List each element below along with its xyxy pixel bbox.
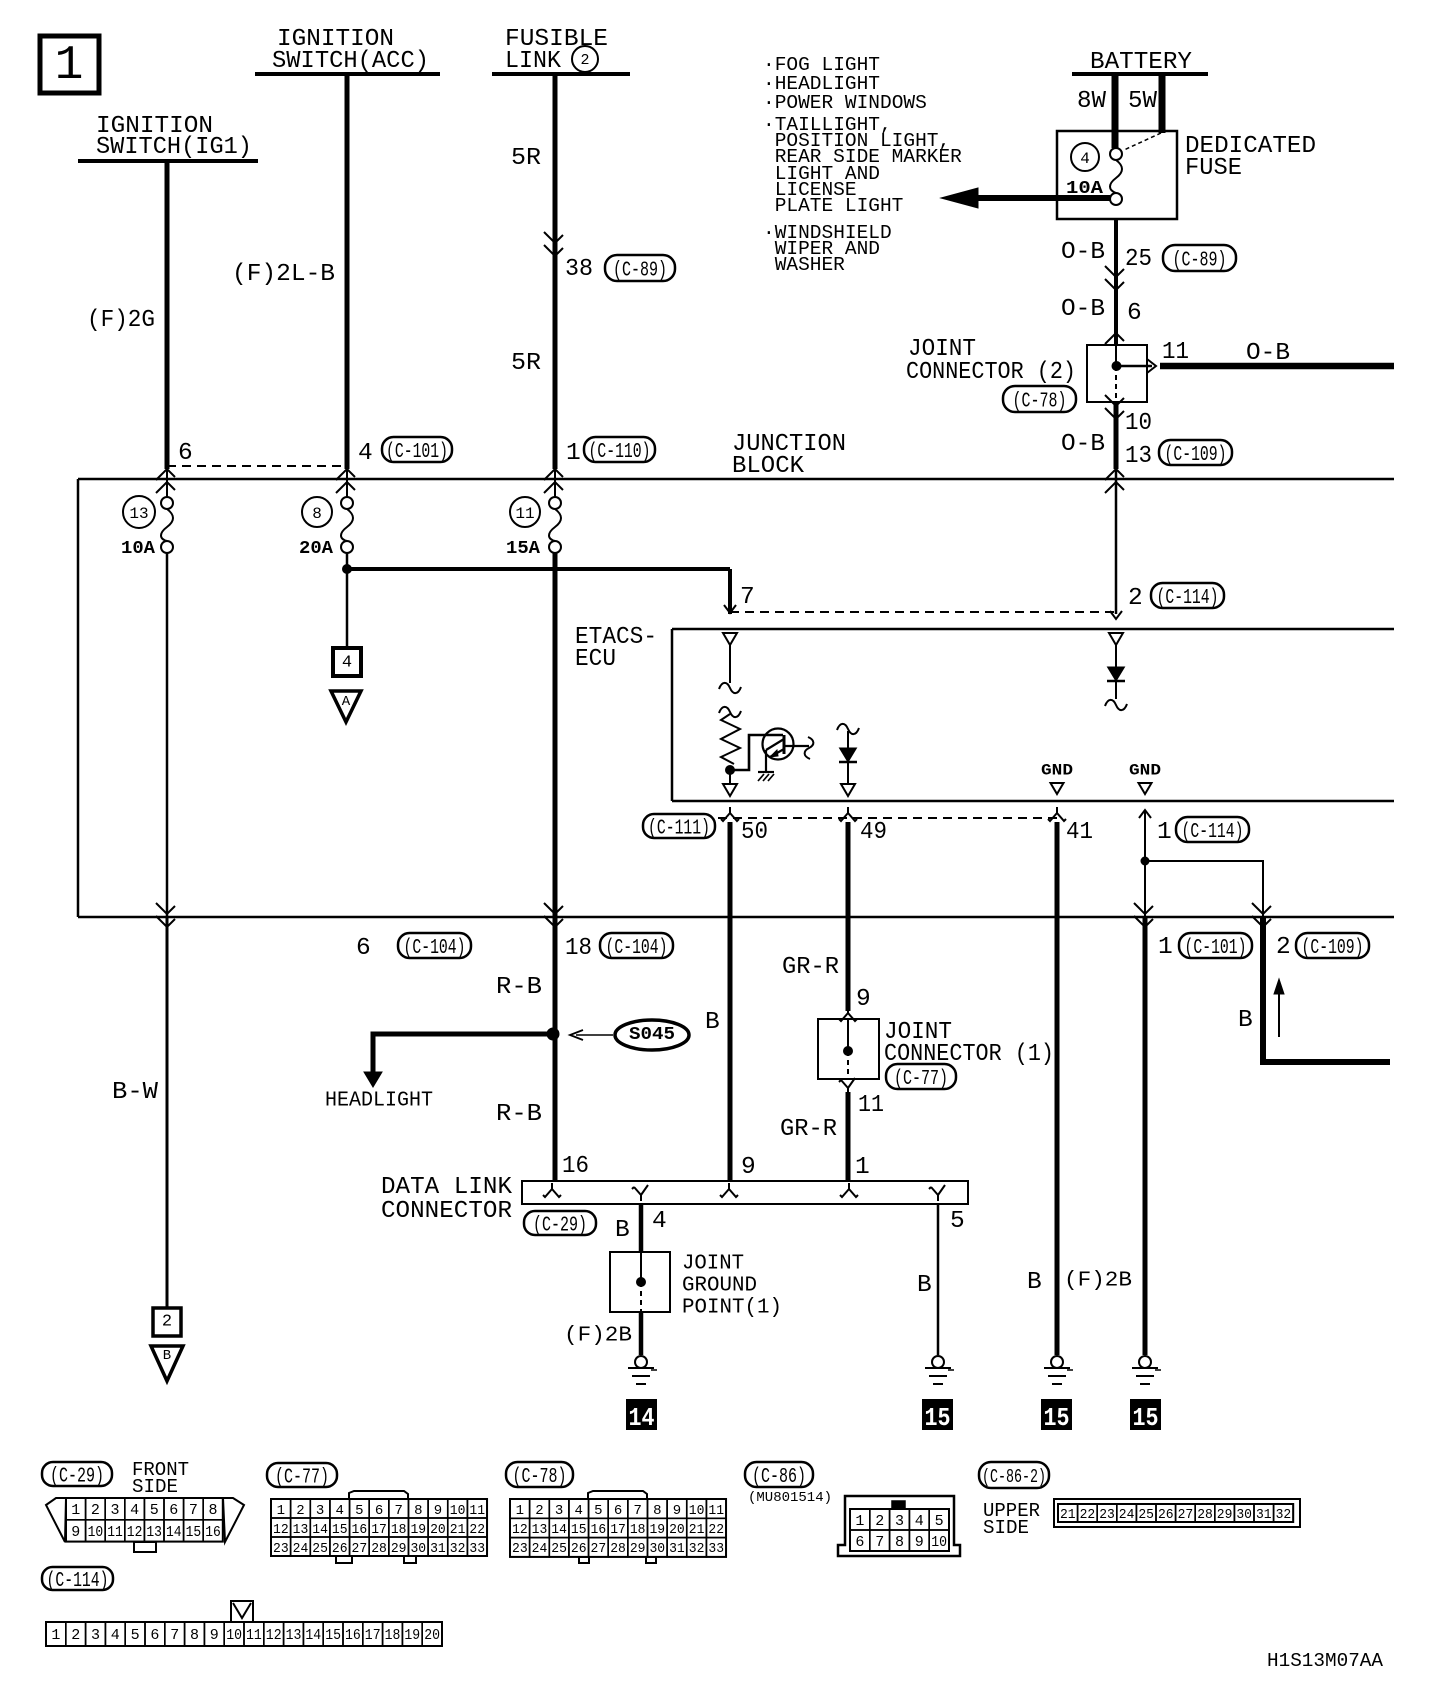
ETACS pin 50 exit triangle xyxy=(723,784,737,796)
triangle A takeoff symbol xyxy=(331,691,361,722)
fuse 11 circle label xyxy=(510,497,540,527)
svg-text:SIDE: SIDE xyxy=(132,1476,178,1498)
circled 2 of fusible link xyxy=(572,46,598,72)
DLC terminal pin 16 xyxy=(543,1183,561,1197)
svg-text:29: 29 xyxy=(630,1541,646,1557)
connector C-86-2 pin grid xyxy=(1058,1504,1078,1522)
svg-text:(C-86-2): (C-86-2) xyxy=(982,1466,1046,1488)
terminal chevron into joint connector 2 xyxy=(1105,333,1124,344)
svg-text:SIDE: SIDE xyxy=(983,1517,1029,1539)
svg-text:24: 24 xyxy=(532,1541,548,1557)
svg-text:20: 20 xyxy=(669,1522,685,1538)
wire 5R fusible link xyxy=(553,74,558,469)
svg-text:(C-101): (C-101) xyxy=(386,441,448,464)
svg-text:(C-109): (C-109) xyxy=(1302,937,1364,960)
svg-text:11: 11 xyxy=(469,1503,485,1519)
svg-text:14: 14 xyxy=(166,1524,182,1541)
connector ref C-77 pinout label xyxy=(267,1463,337,1487)
direction arrow up on wire B xyxy=(1278,984,1280,1037)
svg-text:9: 9 xyxy=(741,1154,756,1181)
svg-text:17: 17 xyxy=(365,1627,381,1644)
svg-text:4: 4 xyxy=(652,1208,667,1235)
connector C-29 pin grid xyxy=(66,1498,86,1520)
svg-text:(F)2B: (F)2B xyxy=(564,1324,632,1347)
svg-text:5: 5 xyxy=(355,1503,363,1519)
svg-text:21: 21 xyxy=(689,1522,705,1538)
svg-text:7: 7 xyxy=(875,1534,884,1551)
svg-text:6: 6 xyxy=(375,1503,383,1519)
svg-text:HEADLIGHT: HEADLIGHT xyxy=(325,1089,433,1112)
dedicated fuse box xyxy=(1057,131,1177,219)
svg-text:24: 24 xyxy=(293,1541,309,1557)
svg-text:POINT(1): POINT(1) xyxy=(682,1296,782,1319)
terminal glyph pin 50 xyxy=(721,807,739,821)
svg-text:15: 15 xyxy=(325,1627,341,1644)
connector C-78 top tab xyxy=(588,1491,647,1499)
svg-text:15: 15 xyxy=(571,1522,587,1538)
connector ref C-89 xyxy=(605,255,675,281)
terminal glyph into joint connector 1 xyxy=(839,1007,857,1021)
svg-text:33: 33 xyxy=(469,1541,485,1557)
svg-text:9: 9 xyxy=(71,1524,80,1541)
svg-text:29: 29 xyxy=(1217,1507,1233,1523)
svg-text:12: 12 xyxy=(273,1522,289,1538)
svg-text:1: 1 xyxy=(55,39,84,93)
switch dashed diagonal from 5W to fuse xyxy=(1124,133,1161,150)
svg-text:11: 11 xyxy=(1162,339,1189,366)
connector ref C-86 pinout label xyxy=(745,1462,813,1487)
svg-text:SWITCH(IG1): SWITCH(IG1) xyxy=(96,134,252,161)
wire R-B from junction block to DLC pin 16 xyxy=(553,917,558,1181)
connector ref C-29 pinout label xyxy=(42,1462,112,1486)
ground ref 15c black box xyxy=(1130,1399,1161,1430)
circled 4 fuse number xyxy=(1071,143,1099,171)
svg-text:2: 2 xyxy=(91,1502,100,1519)
connector ref C-77 label xyxy=(886,1064,956,1089)
joint connector 1 internal wire and dot xyxy=(847,1019,849,1051)
dashed connector line C-101 between pins 6 and 4 xyxy=(167,465,347,467)
joint connector 2 internal wire and junction dot xyxy=(1115,345,1117,366)
svg-text:22: 22 xyxy=(469,1522,485,1538)
branch wire to C-109 pin 2 xyxy=(1145,861,1263,917)
svg-text:27: 27 xyxy=(1178,1507,1194,1523)
connector C-77 bottom tabs xyxy=(336,1556,352,1563)
svg-text:2: 2 xyxy=(162,1312,172,1331)
connector ref C-104 left xyxy=(398,933,471,958)
svg-text:13: 13 xyxy=(146,1524,162,1541)
connector ref C-89 right xyxy=(1163,245,1236,271)
ETACS transistor Q xyxy=(763,729,794,760)
svg-text:JOINT: JOINT xyxy=(682,1252,744,1275)
svg-text:6: 6 xyxy=(614,1503,622,1519)
ETACS transistor emitter ground xyxy=(758,771,774,773)
svg-text:GR-R: GR-R xyxy=(780,1116,837,1143)
connector ref C-114 pinout label xyxy=(42,1567,113,1590)
svg-text:15A: 15A xyxy=(506,539,540,559)
connector ref C-111 xyxy=(643,814,715,838)
svg-text:WASHER: WASHER xyxy=(775,254,845,276)
svg-text:O-B: O-B xyxy=(1246,340,1290,367)
svg-text:25: 25 xyxy=(1138,1507,1154,1523)
bus bar under IGNITION SWITCH(ACC) xyxy=(255,72,440,76)
ETACS diode D1 xyxy=(837,724,859,734)
svg-text:10: 10 xyxy=(931,1534,947,1551)
svg-text:28: 28 xyxy=(371,1541,387,1557)
svg-text:23: 23 xyxy=(273,1541,289,1557)
svg-text:A: A xyxy=(342,694,351,710)
svg-text:49: 49 xyxy=(860,819,887,846)
svg-text:16: 16 xyxy=(352,1522,368,1538)
svg-text:32: 32 xyxy=(689,1541,705,1557)
svg-text:(C-110): (C-110) xyxy=(589,441,651,464)
branch to pin 11 with arrow xyxy=(1121,365,1152,368)
svg-text:DATA LINK: DATA LINK xyxy=(381,1174,512,1201)
fuse 13 circle label xyxy=(123,496,155,528)
svg-text:10: 10 xyxy=(226,1627,242,1644)
terminal chevrons at junction bottom x=1263 xyxy=(1252,903,1271,914)
junction block left edge xyxy=(77,479,80,917)
svg-text:B: B xyxy=(705,1009,720,1036)
svg-text:10: 10 xyxy=(450,1503,466,1519)
fuse element IG1 10A xyxy=(161,497,173,509)
svg-text:H1S13M07AA: H1S13M07AA xyxy=(1267,1650,1384,1672)
svg-text:5R: 5R xyxy=(511,145,541,172)
ETACS pin 49 exit triangle xyxy=(841,784,855,796)
svg-text:(C-111): (C-111) xyxy=(648,818,710,841)
svg-text:8: 8 xyxy=(312,505,322,523)
svg-text:21: 21 xyxy=(450,1522,466,1538)
connector ref C-109 bottom xyxy=(1296,933,1369,958)
svg-text:19: 19 xyxy=(410,1522,426,1538)
svg-text:18: 18 xyxy=(391,1522,407,1538)
svg-text:GND: GND xyxy=(1041,762,1073,780)
connector ref C-110 xyxy=(584,437,655,462)
ground ref 14 black box xyxy=(626,1399,657,1430)
ground symbol 15c xyxy=(1139,1356,1151,1368)
terminal glyph out of joint connector 1 xyxy=(839,1078,855,1094)
svg-text:9: 9 xyxy=(434,1503,442,1519)
connector C-86 top notch xyxy=(892,1501,905,1508)
svg-text:26: 26 xyxy=(571,1541,587,1557)
svg-text:R-B: R-B xyxy=(496,1101,542,1128)
connector C-29 bottom tab xyxy=(134,1542,156,1552)
svg-text:CONNECTOR: CONNECTOR xyxy=(381,1198,512,1225)
svg-text:19: 19 xyxy=(649,1522,665,1538)
wire GR-R joint connector 1 to DLC pin 1 xyxy=(846,1092,851,1181)
terminal chevrons at junction block top x=167 xyxy=(156,469,175,480)
wire B DLC pin 4 to joint ground point xyxy=(639,1204,644,1252)
connector C-114 top notch xyxy=(231,1601,253,1622)
svg-text:15: 15 xyxy=(186,1524,202,1541)
ETACS GND pin triangle 1 xyxy=(1051,783,1064,794)
junction dot GND branch xyxy=(1141,857,1149,865)
svg-text:5: 5 xyxy=(935,1513,944,1530)
svg-text:12: 12 xyxy=(512,1522,528,1538)
svg-text:14: 14 xyxy=(629,1403,655,1433)
svg-text:8: 8 xyxy=(653,1503,661,1519)
ground symbol 15a xyxy=(932,1356,944,1368)
svg-text:4: 4 xyxy=(342,653,352,672)
joint connector (1) box xyxy=(818,1019,879,1079)
svg-text:38: 38 xyxy=(565,256,593,283)
fuse element in dedicated fuse box xyxy=(1110,148,1122,160)
wire ACC fuse to junction dot xyxy=(346,553,349,569)
svg-text:1: 1 xyxy=(277,1503,285,1519)
svg-text:3: 3 xyxy=(895,1513,904,1530)
ETACS wire to transistor base xyxy=(730,735,783,770)
svg-text:26: 26 xyxy=(1158,1507,1174,1523)
svg-text:(C-89): (C-89) xyxy=(1173,250,1227,273)
connector ref C-86-2 pinout label xyxy=(979,1462,1049,1488)
connector ref C-114 top xyxy=(1151,583,1224,608)
svg-text:GROUND: GROUND xyxy=(682,1274,757,1297)
svg-text:1: 1 xyxy=(855,1513,864,1530)
bus bar under FUSIBLE LINK xyxy=(492,72,630,76)
thin lead into fuse ACC xyxy=(346,466,348,498)
svg-text:18: 18 xyxy=(630,1522,646,1538)
svg-text:2: 2 xyxy=(1276,934,1291,961)
svg-text:20A: 20A xyxy=(299,539,333,559)
svg-text:1: 1 xyxy=(1157,819,1172,846)
svg-text:2: 2 xyxy=(535,1503,543,1519)
svg-text:13: 13 xyxy=(532,1522,548,1538)
svg-text:(C-114): (C-114) xyxy=(1157,587,1219,610)
wire B-W down to takeoff B xyxy=(166,917,169,1308)
svg-text:B: B xyxy=(615,1217,630,1244)
svg-text:17: 17 xyxy=(371,1522,387,1538)
wire pin 50 to data link connector pin 9 xyxy=(728,822,733,1181)
svg-text:28: 28 xyxy=(1197,1507,1213,1523)
wire B to next page xyxy=(1263,917,1390,1062)
svg-text:9: 9 xyxy=(210,1627,219,1644)
svg-text:2: 2 xyxy=(1128,585,1143,612)
svg-text:S045: S045 xyxy=(629,1025,675,1045)
connector C-86-2 outer box xyxy=(1054,1499,1300,1527)
wire (F)2B to ground 14 xyxy=(639,1312,644,1355)
svg-text:B: B xyxy=(1027,1269,1042,1296)
svg-text:13: 13 xyxy=(293,1522,309,1538)
triangle B takeoff symbol xyxy=(151,1346,183,1381)
connector C-78 pin grid xyxy=(510,1499,530,1518)
DLC terminal pin 4 xyxy=(632,1185,648,1201)
svg-text:8: 8 xyxy=(895,1534,904,1551)
wire (F)2L-B from ignition switch ACC xyxy=(345,74,350,469)
fuse element ACC 20A xyxy=(341,497,353,509)
svg-text:3: 3 xyxy=(110,1502,119,1519)
svg-text:9: 9 xyxy=(915,1534,924,1551)
svg-text:4: 4 xyxy=(915,1513,924,1530)
svg-text:20: 20 xyxy=(424,1627,440,1644)
svg-text:8: 8 xyxy=(190,1627,199,1644)
svg-text:(C-29): (C-29) xyxy=(50,1466,104,1489)
svg-text:1: 1 xyxy=(855,1154,870,1181)
svg-text:3: 3 xyxy=(91,1627,100,1644)
svg-text:11: 11 xyxy=(708,1503,724,1519)
svg-text:GND: GND xyxy=(1129,762,1161,780)
page number box 1 xyxy=(40,36,99,93)
svg-text:5: 5 xyxy=(950,1208,965,1235)
svg-text:2: 2 xyxy=(71,1627,80,1644)
svg-text:LINK: LINK xyxy=(505,48,561,75)
svg-text:6: 6 xyxy=(150,1627,159,1644)
svg-text:6: 6 xyxy=(855,1534,864,1551)
wire pin 49 to joint connector 1 xyxy=(846,822,851,1011)
open arrow into ETACS pin 2 xyxy=(1110,611,1122,619)
junction block bottom edge xyxy=(78,916,1394,919)
svg-text:16: 16 xyxy=(345,1627,361,1644)
svg-text:50: 50 xyxy=(741,819,768,846)
svg-text:7: 7 xyxy=(189,1502,198,1519)
branch wire to HEADLIGHT xyxy=(373,1034,553,1072)
connector C-29 pinout shell xyxy=(46,1498,244,1542)
thin lead into fuse IG1 xyxy=(166,466,168,498)
svg-text:31: 31 xyxy=(1256,1507,1272,1523)
svg-text:5: 5 xyxy=(594,1503,602,1519)
svg-text:O-B: O-B xyxy=(1061,431,1105,458)
svg-text:12: 12 xyxy=(266,1627,282,1644)
svg-text:11: 11 xyxy=(107,1524,123,1541)
svg-text:(C-29): (C-29) xyxy=(533,1215,587,1238)
ETACS GND pin triangle 2 xyxy=(1139,783,1152,794)
svg-text:30: 30 xyxy=(649,1541,665,1557)
data link connector bar xyxy=(522,1181,968,1204)
svg-text:16: 16 xyxy=(591,1522,607,1538)
svg-text:12: 12 xyxy=(127,1524,143,1541)
svg-text:·POWER WINDOWS: ·POWER WINDOWS xyxy=(763,92,927,114)
svg-text:31: 31 xyxy=(669,1541,685,1557)
svg-text:23: 23 xyxy=(512,1541,528,1557)
svg-text:32: 32 xyxy=(450,1541,466,1557)
connector ref C-101 xyxy=(382,437,452,462)
svg-text:7: 7 xyxy=(633,1503,641,1519)
boxed 4 takeoff symbol xyxy=(333,648,361,676)
ETACS resistor xyxy=(719,707,741,717)
svg-text:R-B: R-B xyxy=(496,974,542,1001)
svg-text:13: 13 xyxy=(129,505,148,523)
ETACS-ECU box left edge xyxy=(671,629,674,801)
wire B DLC pin 5 to ground 15 xyxy=(937,1204,940,1355)
svg-text:15: 15 xyxy=(1133,1403,1159,1433)
svg-text:10: 10 xyxy=(689,1503,705,1519)
wire from ACC dot down to ref A xyxy=(346,569,349,648)
svg-text:PLATE LIGHT: PLATE LIGHT xyxy=(775,195,904,217)
svg-text:(C-114): (C-114) xyxy=(47,1570,109,1593)
svg-text:O-B: O-B xyxy=(1061,239,1105,266)
svg-text:ECU: ECU xyxy=(575,646,616,673)
svg-text:2: 2 xyxy=(875,1513,884,1530)
open arrow into ETACS pin 7 xyxy=(724,605,736,613)
svg-text:33: 33 xyxy=(708,1541,724,1557)
joint ground point internal wire and dot xyxy=(640,1252,642,1282)
DLC terminal pin 5 xyxy=(929,1185,945,1201)
svg-text:8W: 8W xyxy=(1077,88,1106,115)
connector C-114 pin grid xyxy=(46,1622,66,1646)
dashed connector line C-114 pins 7 and 2 xyxy=(730,611,1116,613)
svg-text:18: 18 xyxy=(565,935,592,962)
svg-text:9: 9 xyxy=(673,1503,681,1519)
svg-text:2: 2 xyxy=(296,1503,304,1519)
svg-text:1: 1 xyxy=(71,1502,80,1519)
connector ref C-104 right xyxy=(600,933,673,958)
svg-text:(C-77): (C-77) xyxy=(275,1467,329,1490)
svg-text:B: B xyxy=(163,1348,171,1364)
svg-text:9: 9 xyxy=(856,986,871,1013)
svg-text:22: 22 xyxy=(708,1522,724,1538)
svg-text:4: 4 xyxy=(130,1502,139,1519)
svg-text:(C-101): (C-101) xyxy=(1185,937,1247,960)
svg-text:GR-R: GR-R xyxy=(782,954,839,981)
wire GND C-114 down to junction dot xyxy=(1144,831,1146,917)
arrow to other loads from dedicated fuse xyxy=(978,195,1110,201)
svg-text:6: 6 xyxy=(1127,300,1142,327)
svg-text:(C-77): (C-77) xyxy=(894,1068,948,1091)
svg-text:10: 10 xyxy=(1125,410,1152,437)
svg-text:27: 27 xyxy=(591,1541,607,1557)
connector C-77 top tab xyxy=(349,1491,408,1499)
joint ground point (1) box xyxy=(610,1252,670,1312)
svg-text:30: 30 xyxy=(1236,1507,1252,1523)
svg-text:29: 29 xyxy=(391,1541,407,1557)
ground ref 15b black box xyxy=(1041,1399,1072,1430)
connector C-78 bottom tabs xyxy=(579,1557,589,1563)
svg-text:BLOCK: BLOCK xyxy=(732,453,804,480)
svg-text:27: 27 xyxy=(352,1541,368,1557)
svg-text:11: 11 xyxy=(858,1092,884,1119)
svg-text:3: 3 xyxy=(316,1503,324,1519)
terminal chevrons at junction bottom x=555 xyxy=(544,903,563,914)
svg-text:FUSE: FUSE xyxy=(1185,155,1242,182)
svg-text:1: 1 xyxy=(566,440,581,467)
terminal glyph pin 41 xyxy=(1048,807,1066,821)
svg-text:5: 5 xyxy=(131,1627,140,1644)
ETACS-ECU box top edge xyxy=(672,628,1394,631)
svg-text:2: 2 xyxy=(580,52,589,69)
svg-text:18: 18 xyxy=(385,1627,401,1644)
svg-text:1: 1 xyxy=(516,1503,524,1519)
ground ref 15a black box xyxy=(922,1399,953,1430)
ETACS-ECU box bottom edge xyxy=(672,800,1394,803)
DLC terminal pin 9 xyxy=(720,1183,738,1197)
wire O-B below dedicated fuse xyxy=(1114,219,1118,345)
boxed 2 takeoff symbol xyxy=(153,1308,181,1336)
svg-text:3: 3 xyxy=(555,1503,563,1519)
svg-text:5: 5 xyxy=(150,1502,159,1519)
wire (F)2B to ground 15 xyxy=(1143,917,1148,1355)
svg-text:14: 14 xyxy=(551,1522,567,1538)
svg-text:7: 7 xyxy=(170,1627,179,1644)
junction dot on ACC branch xyxy=(343,565,352,574)
terminal chevrons at junction block top x=555 xyxy=(544,469,563,480)
svg-text:(C-109): (C-109) xyxy=(1165,444,1227,467)
ETACS internal junction dot xyxy=(726,766,735,775)
svg-text:B-W: B-W xyxy=(112,1079,158,1106)
ETACS coil hookup wire from pin 7 xyxy=(729,645,731,683)
svg-text:22: 22 xyxy=(1080,1507,1096,1523)
bus bar under IGNITION SWITCH(IG1) xyxy=(78,159,258,163)
ground symbol 14 xyxy=(635,1356,647,1368)
svg-text:(C-86): (C-86) xyxy=(752,1466,806,1489)
junction block outline top edge xyxy=(78,478,1394,481)
svg-text:4: 4 xyxy=(111,1627,120,1644)
svg-text:(C-78): (C-78) xyxy=(513,1466,567,1489)
svg-text:13: 13 xyxy=(286,1627,302,1644)
battery feed wire 8W xyxy=(1112,74,1119,148)
terminal chevrons at junction bottom x=167 xyxy=(156,903,175,914)
svg-text:6: 6 xyxy=(356,935,371,962)
svg-text:11: 11 xyxy=(246,1627,262,1644)
wire O-B junction top to ETACS pin 2 xyxy=(1115,466,1118,614)
svg-text:6: 6 xyxy=(169,1502,178,1519)
